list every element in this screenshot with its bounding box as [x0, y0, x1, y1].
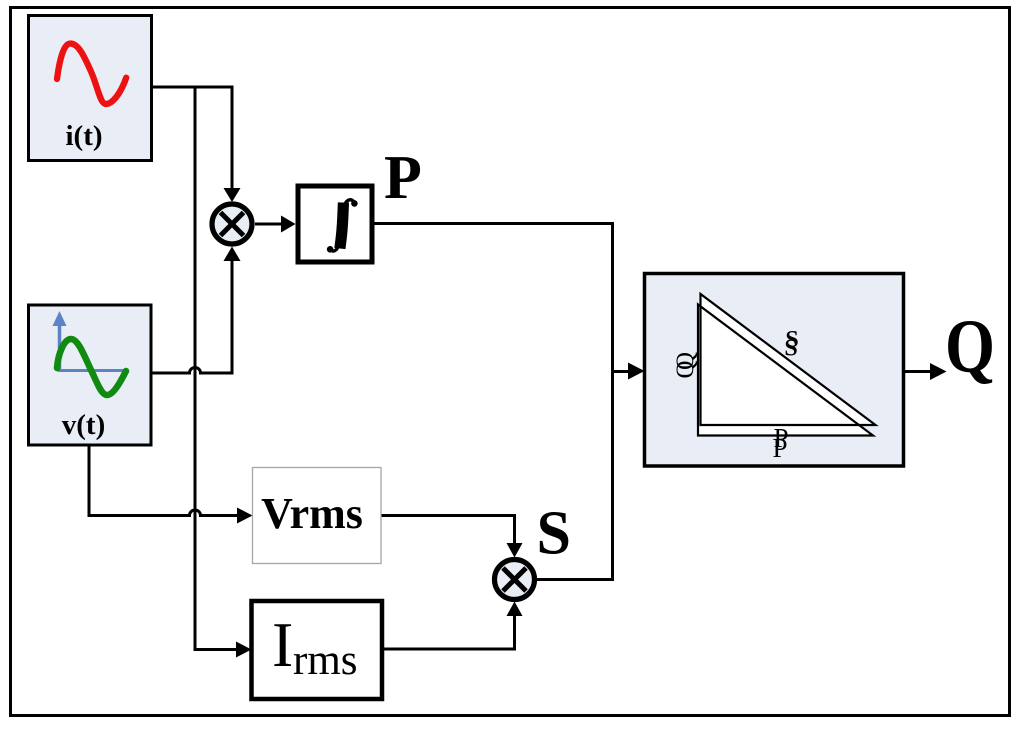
svg-text:v(t): v(t) — [62, 409, 105, 441]
svg-text:S: S — [537, 500, 571, 568]
svg-text:P: P — [384, 144, 422, 212]
svg-text:S: S — [784, 335, 797, 361]
svg-text:Q: Q — [672, 360, 699, 378]
svg-text:I: I — [272, 609, 293, 680]
svg-text:P: P — [772, 433, 787, 463]
svg-text:Vrms: Vrms — [261, 489, 363, 538]
svg-text:Q: Q — [945, 305, 995, 389]
svg-text:rms: rms — [293, 637, 358, 684]
svg-text:i(t): i(t) — [65, 120, 102, 152]
